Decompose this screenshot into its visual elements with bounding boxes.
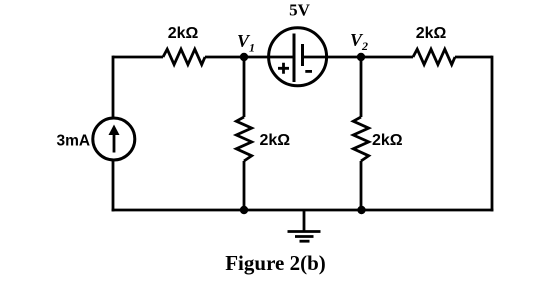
wire left resistor to bottom	[243, 161, 246, 210]
resistor 2kΩ right vertical	[353, 117, 368, 161]
wire bottom horizontal	[112, 209, 494, 212]
svg-text:5V: 5V	[289, 1, 311, 20]
value label 2kΩ right vertical	[372, 132, 403, 149]
wire node V2 down to resistor	[360, 57, 363, 117]
node V2 label	[350, 30, 368, 53]
minus sign	[305, 70, 312, 73]
current source 3mA circle	[93, 118, 135, 160]
wire resistor to node V1	[205, 56, 244, 59]
caption Figure 2(b)	[225, 251, 326, 275]
wire left bottom vertical	[112, 160, 115, 211]
value label 2kΩ left vertical	[260, 132, 291, 149]
voltage source long plate (+)	[293, 34, 296, 83]
current source arrow head	[109, 125, 120, 136]
value label 5V	[289, 1, 311, 20]
junction dot bottom left	[240, 206, 248, 214]
current source arrow shaft	[113, 132, 116, 153]
wire node V1 to voltage source	[244, 56, 294, 59]
ground bar 3	[300, 240, 310, 243]
wire top-left segment	[113, 56, 163, 59]
svg-text:2kΩ: 2kΩ	[260, 132, 291, 149]
svg-text:3mA: 3mA	[57, 132, 91, 149]
node V1 label	[237, 31, 255, 55]
resistor 2kΩ left vertical	[236, 117, 251, 161]
wire node V1 down to resistor	[243, 57, 246, 117]
resistor 2kΩ top-right	[413, 49, 455, 64]
ground bar 1	[288, 230, 321, 233]
value label 2kΩ top-left	[168, 25, 199, 42]
plus sign	[278, 63, 289, 74]
node V2 junction dot	[357, 53, 365, 61]
value label 3mA	[57, 132, 91, 149]
wire voltage source to node V2	[303, 56, 362, 59]
wire right side vertical	[491, 56, 494, 212]
svg-text:2kΩ: 2kΩ	[372, 132, 403, 149]
svg-text:Figure 2(b): Figure 2(b)	[225, 251, 326, 275]
junction dot bottom right	[357, 206, 365, 214]
voltage source short plate (-)	[301, 44, 304, 66]
resistor 2kΩ top-left	[163, 49, 205, 64]
voltage source V5 circle	[269, 28, 327, 86]
svg-text:2kΩ: 2kΩ	[416, 25, 447, 42]
ground stem	[303, 210, 306, 232]
svg-text:2kΩ: 2kΩ	[168, 25, 199, 42]
value label 2kΩ top-right	[416, 25, 447, 42]
wire node V2 to right resistor	[361, 56, 413, 59]
ground bar 2	[295, 235, 314, 238]
wire resistor to top-right corner	[455, 56, 492, 59]
node V1 junction dot	[240, 53, 248, 61]
wire right resistor to bottom	[360, 161, 363, 210]
wire left top vertical	[112, 56, 115, 118]
